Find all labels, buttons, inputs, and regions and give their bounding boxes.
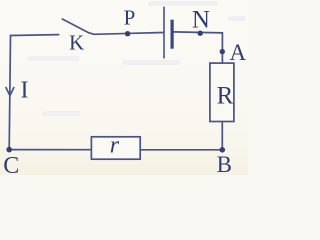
node P: [125, 31, 130, 36]
switch K blade: [62, 19, 94, 34]
wire resistor R to node B: [221, 122, 223, 150]
battery short thick plate: [171, 20, 174, 49]
resistor r box: [91, 137, 140, 159]
node A: [220, 49, 225, 54]
battery long plate: [163, 7, 165, 58]
svg-text:C: C: [3, 153, 19, 175]
resistor R box: [210, 63, 234, 121]
wire switch to battery: [94, 33, 163, 35]
wire battery to top-right corner: [174, 32, 223, 33]
wire left vertical: [9, 36, 10, 150]
node B: [220, 147, 226, 153]
svg-text:R: R: [217, 83, 234, 110]
svg-text:r: r: [110, 133, 120, 159]
svg-text:N: N: [192, 7, 210, 34]
current arrow I: [6, 88, 14, 96]
wire bottom left segment: [9, 149, 91, 151]
wire top-left horizontal: [11, 34, 59, 37]
svg-text:B: B: [217, 152, 232, 175]
svg-text:P: P: [124, 5, 136, 29]
svg-text:A: A: [230, 40, 247, 65]
background paper: [0, 0, 248, 175]
svg-text:K: K: [69, 31, 84, 55]
node N: [198, 31, 203, 36]
faint bleed-through marks: [28, 1, 246, 116]
svg-text:I: I: [21, 78, 29, 104]
wire bottom right segment: [140, 149, 222, 151]
wire right vertical to resistor R: [221, 33, 223, 63]
node C: [6, 147, 12, 153]
